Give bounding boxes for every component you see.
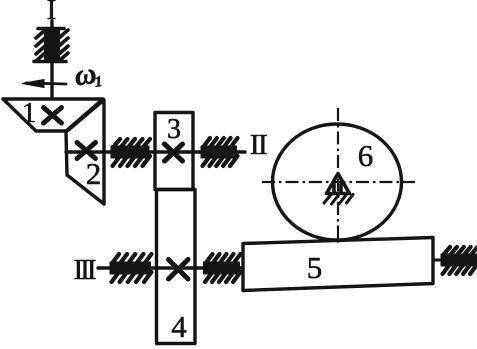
svg-text:4: 4 [171,309,187,344]
svg-text:II: II [250,129,267,161]
svg-text:III: III [74,254,96,286]
svg-text:5: 5 [307,250,323,285]
svg-text:3: 3 [167,114,181,145]
svg-text:1: 1 [22,97,37,129]
svg-text:I: I [47,0,57,26]
svg-text:6: 6 [358,138,374,173]
svg-text:2: 2 [86,156,102,191]
